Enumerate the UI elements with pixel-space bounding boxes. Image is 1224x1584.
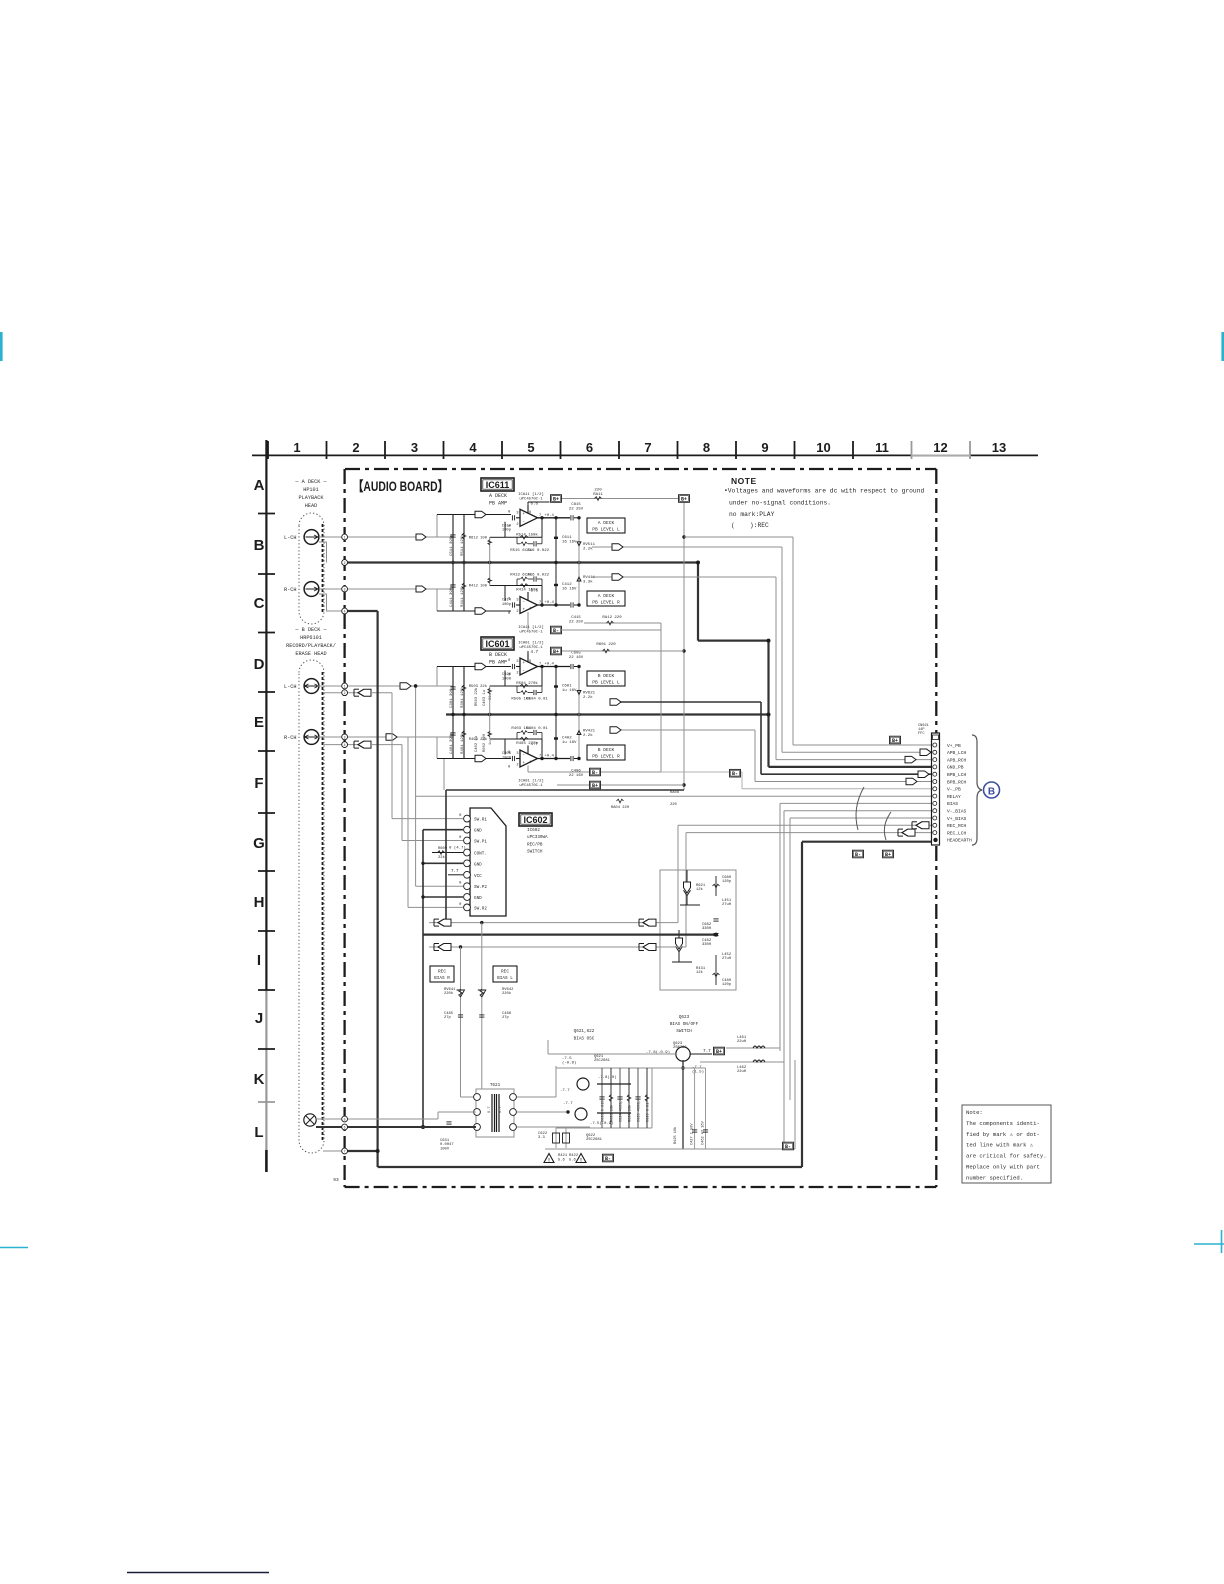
- svg-text:R504 270k: R504 270k: [516, 681, 538, 686]
- svg-text:22 16V: 22 16V: [569, 656, 584, 660]
- svg-text:uPC4570C-1: uPC4570C-1: [519, 784, 543, 788]
- svg-text:BIAS ON/OFF: BIAS ON/OFF: [670, 1022, 699, 1027]
- svg-text:PLAYBACK: PLAYBACK: [299, 495, 325, 501]
- svg-text:27p: 27p: [444, 1016, 452, 1020]
- svg-text:PB AMP: PB AMP: [489, 501, 507, 507]
- svg-text:-: -: [523, 600, 526, 604]
- svg-text:!: !: [579, 1158, 582, 1164]
- svg-text:C624 4000p: C624 4000p: [620, 1100, 624, 1122]
- svg-text:5: 5: [527, 440, 534, 455]
- svg-text:L: L: [254, 1124, 263, 1141]
- svg-text:R425 10k: R425 10k: [673, 1127, 678, 1144]
- svg-text:16 16V: 16 16V: [562, 588, 577, 592]
- svg-text:HP101: HP101: [303, 487, 319, 493]
- svg-text:PB LEVEL L: PB LEVEL L: [592, 527, 620, 533]
- svg-text:IC601: IC601: [485, 639, 509, 649]
- svg-text:BPB_LCH: BPB_LCH: [947, 772, 967, 778]
- svg-text:ICA01 [1/2]: ICA01 [1/2]: [518, 641, 544, 646]
- svg-text:-7.5: -7.5: [562, 1057, 572, 1061]
- svg-text:SWITCH: SWITCH: [527, 850, 543, 855]
- svg-text:R503 22k: R503 22k: [474, 687, 479, 706]
- svg-text:12: 12: [933, 440, 947, 455]
- svg-text:B+: B+: [716, 1049, 722, 1055]
- svg-text:SW.R2: SW.R2: [474, 906, 487, 911]
- svg-text:22uH: 22uH: [737, 1040, 746, 1044]
- svg-text:GND: GND: [474, 862, 482, 867]
- svg-text:22 16V: 22 16V: [569, 774, 584, 778]
- svg-text:RA04 220: RA04 220: [611, 806, 630, 810]
- svg-text:2.2k: 2.2k: [583, 733, 593, 738]
- svg-text:B+: B+: [892, 738, 898, 744]
- svg-text:RV421: RV421: [583, 730, 596, 734]
- svg-text:11: 11: [875, 440, 889, 455]
- svg-text:R-CH: R-CH: [284, 587, 296, 593]
- svg-text:R601 220: R601 220: [596, 643, 616, 647]
- svg-text:uPC4570C-1: uPC4570C-1: [519, 497, 543, 501]
- svg-text:REC_LCH: REC_LCH: [947, 830, 967, 836]
- svg-text:2.2k: 2.2k: [583, 546, 593, 551]
- svg-text:22 25V: 22 25V: [569, 507, 584, 511]
- svg-text:F: F: [254, 775, 263, 792]
- svg-text:ICA11 [1/2]: ICA11 [1/2]: [518, 492, 544, 497]
- svg-text:APB_RCH: APB_RCH: [947, 757, 967, 763]
- svg-text:J: J: [255, 1010, 263, 1027]
- svg-text:R414 150k: R414 150k: [516, 588, 538, 593]
- svg-text:B-: B-: [592, 770, 598, 776]
- svg-text:SWITCH: SWITCH: [676, 1029, 692, 1034]
- svg-text:22 25V: 22 25V: [569, 621, 584, 625]
- svg-text:REC/PB: REC/PB: [527, 842, 543, 847]
- svg-text:220: 220: [670, 803, 678, 807]
- svg-text:3: 3: [516, 660, 518, 664]
- svg-text:C626 0.01: C626 0.01: [647, 1103, 651, 1122]
- svg-text:C412: C412: [562, 583, 572, 587]
- svg-text:4: 4: [529, 761, 531, 765]
- svg-text:A DECK: A DECK: [598, 593, 615, 599]
- svg-text:3: 3: [516, 599, 518, 603]
- svg-text:C402: C402: [562, 737, 572, 741]
- svg-text:-: -: [523, 670, 526, 674]
- svg-text:1000: 1000: [502, 756, 512, 760]
- svg-text:RELAY: RELAY: [947, 794, 961, 800]
- svg-text:B DECK: B DECK: [489, 652, 507, 658]
- svg-text:— A DECK —: — A DECK —: [294, 479, 327, 485]
- svg-text:4: 4: [344, 743, 346, 747]
- svg-text:REC: REC: [501, 970, 509, 975]
- svg-text:ICA01 [1/2]: ICA01 [1/2]: [518, 779, 544, 784]
- svg-text:22uH: 22uH: [737, 1070, 746, 1074]
- svg-text:B DECK: B DECK: [598, 673, 615, 679]
- svg-text:2: 2: [344, 561, 346, 565]
- svg-text:RV511: RV511: [583, 543, 596, 547]
- svg-text:NOTE: NOTE: [731, 476, 757, 486]
- svg-text:C416 0.022: C416 0.022: [525, 574, 550, 578]
- svg-text:+0.4: +0.4: [545, 601, 555, 605]
- svg-text:+0.4: +0.4: [545, 514, 555, 518]
- svg-text:BIAS R: BIAS R: [434, 976, 450, 981]
- svg-text:SW.R1: SW.R1: [474, 818, 487, 823]
- svg-text:C516 0.022: C516 0.022: [525, 549, 550, 553]
- svg-text:4: 4: [529, 608, 531, 612]
- svg-text:5.6: 5.6: [558, 1159, 566, 1163]
- svg-text:•Voltages and waveforms are dc: •Voltages and waveforms are dc with resp…: [724, 488, 924, 495]
- svg-text:C427 1 50V: C427 1 50V: [691, 1123, 695, 1145]
- svg-text:R514 150k: R514 150k: [516, 532, 538, 537]
- svg-text:6: 6: [344, 1125, 346, 1129]
- svg-text:PB LEVEL R: PB LEVEL R: [592, 600, 620, 606]
- svg-text:C415: C415: [571, 616, 581, 620]
- svg-text:2SC2681: 2SC2681: [594, 1059, 611, 1063]
- svg-text:7: 7: [344, 1149, 346, 1153]
- svg-text:-7.7: -7.7: [560, 1089, 570, 1093]
- svg-text:IC602: IC602: [527, 828, 540, 833]
- svg-text:G: G: [253, 835, 265, 852]
- svg-text:PB AMP: PB AMP: [489, 660, 507, 666]
- svg-text:ICA11 [1/2]: ICA11 [1/2]: [518, 625, 544, 630]
- svg-text:R404 270k: R404 270k: [516, 741, 538, 746]
- svg-text:ERASE HEAD: ERASE HEAD: [295, 651, 326, 657]
- svg-text:B-: B-: [605, 1156, 611, 1162]
- svg-text:CONT.: CONT.: [474, 852, 487, 857]
- svg-text:(1.5): (1.5): [692, 1070, 704, 1075]
- svg-text:HEAD: HEAD: [305, 503, 317, 509]
- svg-text:V+_BIAS: V+_BIAS: [947, 816, 967, 822]
- svg-text:C403 1u: C403 1u: [483, 690, 487, 706]
- svg-text:3: 3: [411, 440, 418, 455]
- svg-text:H: H: [254, 894, 265, 911]
- svg-text:2: 2: [516, 523, 518, 527]
- svg-text:B+: B+: [553, 649, 559, 655]
- svg-text:B-: B-: [732, 771, 738, 777]
- svg-text:( ):REC: ( ):REC: [731, 522, 769, 529]
- svg-text:RECORD/PLAYBACK/: RECORD/PLAYBACK/: [286, 643, 336, 649]
- svg-text:C625 4000p: C625 4000p: [638, 1100, 642, 1122]
- svg-text:8: 8: [529, 660, 531, 664]
- svg-text:L-CH: L-CH: [284, 684, 296, 690]
- svg-text:3300: 3300: [702, 943, 712, 947]
- svg-text:0.7: 0.7: [488, 1107, 492, 1113]
- svg-text:2: 2: [352, 440, 359, 455]
- svg-text:R503 22k: R503 22k: [469, 684, 488, 689]
- svg-text:REC_RCH: REC_RCH: [947, 823, 967, 829]
- svg-text:0 (4.7): 0 (4.7): [449, 846, 466, 851]
- svg-text:are critical for safety.: are critical for safety.: [966, 1153, 1047, 1160]
- svg-text:R-CH: R-CH: [284, 735, 296, 741]
- svg-text:HEADEARTH: HEADEARTH: [947, 838, 972, 844]
- svg-text:12k: 12k: [696, 970, 704, 975]
- svg-text:VCC: VCC: [474, 874, 482, 879]
- svg-text:BPB_RCH: BPB_RCH: [947, 779, 967, 785]
- svg-text:C301 390: C301 390: [450, 688, 454, 708]
- svg-text:10: 10: [816, 440, 830, 455]
- svg-text:16 16V: 16 16V: [562, 540, 577, 544]
- svg-text:C625 0.015: C625 0.015: [602, 1100, 606, 1122]
- svg-text:-7.7: -7.7: [563, 1102, 573, 1106]
- svg-text:B+: B+: [681, 497, 687, 503]
- svg-text:5.6: 5.6: [569, 1159, 577, 1163]
- svg-text:E: E: [254, 714, 264, 731]
- svg-text:uPC4570C-1: uPC4570C-1: [519, 631, 543, 635]
- svg-text:uPC4570C-1: uPC4570C-1: [519, 646, 543, 650]
- svg-text:220: 220: [594, 489, 602, 493]
- svg-text:C411 390p: C411 390p: [450, 585, 454, 607]
- svg-text:C: C: [254, 595, 265, 612]
- svg-text:Note:: Note:: [966, 1109, 983, 1116]
- svg-text:220k: 220k: [444, 991, 454, 996]
- svg-text:R602 220: R602 220: [483, 733, 487, 752]
- svg-text:no mark:PLAY: no mark:PLAY: [729, 511, 775, 518]
- svg-text:3.3k: 3.3k: [583, 580, 593, 585]
- svg-text:C611: C611: [562, 536, 572, 540]
- svg-text:FFC: FFC: [918, 732, 924, 736]
- svg-text:-: -: [523, 754, 526, 758]
- svg-text:-: -: [523, 521, 526, 525]
- svg-text:BIAS OSC: BIAS OSC: [574, 1037, 595, 1042]
- svg-text:IC611: IC611: [486, 480, 510, 490]
- svg-text:3: 3: [516, 752, 518, 756]
- svg-text:12k: 12k: [696, 887, 704, 892]
- svg-text:C815: C815: [571, 503, 581, 507]
- svg-text:6.6: 6.6: [531, 502, 539, 506]
- svg-text:GND: GND: [474, 896, 482, 901]
- svg-text:B-: B-: [553, 628, 559, 634]
- svg-text:8: 8: [529, 511, 531, 515]
- svg-text:Q621,622: Q621,622: [574, 1029, 595, 1034]
- svg-text:B-: B-: [855, 852, 861, 858]
- svg-text:4: 4: [469, 440, 477, 455]
- svg-text:【AUDIO BOARD】: 【AUDIO BOARD】: [353, 479, 448, 494]
- svg-text:2.2k: 2.2k: [583, 695, 593, 700]
- svg-text:2: 2: [344, 691, 346, 695]
- svg-text:0.7: 0.7: [499, 1107, 503, 1113]
- svg-text:T621: T621: [490, 1083, 501, 1088]
- svg-text:B: B: [254, 537, 265, 554]
- svg-text:D: D: [254, 656, 265, 673]
- svg-text:GND: GND: [474, 829, 482, 834]
- svg-text:4: 4: [344, 609, 346, 613]
- svg-text:+0.4: +0.4: [545, 663, 555, 667]
- svg-text:9: 9: [761, 440, 768, 455]
- svg-text:2: 2: [516, 610, 518, 614]
- svg-text:R412 100: R412 100: [469, 585, 488, 589]
- svg-text:PB LEVEL R: PB LEVEL R: [592, 754, 620, 760]
- svg-text:1u 16V: 1u 16V: [562, 689, 577, 693]
- svg-text:5: 5: [344, 1117, 346, 1121]
- svg-text:2: 2: [516, 764, 518, 768]
- svg-text:7: 7: [644, 440, 651, 455]
- svg-text:IC602: IC602: [523, 815, 547, 825]
- svg-text:V-_BIAS: V-_BIAS: [947, 809, 967, 815]
- svg-text:under no-signal conditions.: under no-signal conditions.: [729, 500, 831, 507]
- svg-text:V+_PB: V+_PB: [947, 743, 961, 749]
- svg-text:BIAS: BIAS: [947, 801, 958, 807]
- svg-text:!: !: [547, 1158, 550, 1164]
- svg-text:B-: B-: [785, 1144, 791, 1150]
- svg-text:100p: 100p: [502, 603, 512, 607]
- svg-text:93: 93: [333, 1177, 339, 1183]
- svg-text:+0.4: +0.4: [545, 755, 555, 759]
- svg-text:1000: 1000: [502, 677, 512, 681]
- svg-text:3300: 3300: [702, 927, 712, 931]
- svg-text:120p: 120p: [722, 983, 732, 987]
- svg-text:PB LEVEL L: PB LEVEL L: [592, 680, 620, 686]
- svg-text:27uH: 27uH: [722, 903, 731, 907]
- svg-text:1u 16V: 1u 16V: [562, 741, 577, 745]
- svg-text:RV621: RV621: [583, 692, 596, 696]
- svg-text:C504 0.01: C504 0.01: [526, 698, 548, 702]
- svg-text:-7.8(-0): -7.8(-0): [598, 1075, 617, 1080]
- svg-text:SW.P1: SW.P1: [474, 840, 487, 845]
- svg-text:RA12 220: RA12 220: [602, 616, 622, 620]
- svg-text:A DECK: A DECK: [598, 520, 615, 526]
- svg-text:L-CH: L-CH: [284, 535, 296, 541]
- svg-text:— B DECK —: — B DECK —: [294, 627, 327, 633]
- svg-text:8: 8: [703, 440, 710, 455]
- svg-text:1: 1: [293, 440, 300, 455]
- svg-text:1: 1: [344, 684, 346, 688]
- svg-text:GND_PB: GND_PB: [947, 765, 964, 771]
- svg-text:RA08: RA08: [670, 791, 680, 795]
- svg-text:R612 100: R612 100: [469, 536, 488, 540]
- svg-text:1u: 1u: [489, 740, 493, 745]
- svg-text:2SB798: 2SB798: [673, 1046, 687, 1050]
- svg-text:The components identi-: The components identi-: [966, 1120, 1040, 1127]
- svg-text:C605: C605: [571, 652, 581, 656]
- svg-text:100p: 100p: [502, 529, 512, 533]
- svg-text:3: 3: [344, 587, 346, 591]
- svg-text:C601: C601: [562, 685, 572, 689]
- svg-text:C404 0.01: C404 0.01: [526, 727, 548, 731]
- svg-text:B: B: [988, 787, 995, 798]
- svg-text:B+: B+: [592, 783, 598, 789]
- svg-text:SW.P2: SW.P2: [474, 885, 487, 890]
- svg-text:R403 22k: R403 22k: [469, 737, 488, 742]
- svg-text:6: 6: [586, 440, 593, 455]
- svg-text:RA11: RA11: [593, 493, 603, 497]
- svg-text:R421: R421: [558, 1154, 568, 1158]
- svg-text:BIAS L: BIAS L: [497, 976, 513, 981]
- svg-text:4.7: 4.7: [531, 651, 539, 655]
- svg-text:B DECK: B DECK: [598, 747, 615, 753]
- svg-text:(-0.9): (-0.9): [562, 1061, 576, 1066]
- svg-text:220k: 220k: [502, 991, 512, 996]
- svg-text:Replace only with part: Replace only with part: [966, 1164, 1040, 1171]
- svg-text:Q623: Q623: [679, 1015, 690, 1020]
- svg-text:B+: B+: [885, 852, 891, 858]
- svg-text:3.3: 3.3: [538, 1136, 546, 1140]
- svg-text:HRP6101: HRP6101: [300, 635, 322, 641]
- svg-text:13: 13: [992, 440, 1006, 455]
- svg-text:R422: R422: [569, 1154, 579, 1158]
- svg-text:100V: 100V: [440, 1147, 450, 1151]
- svg-text:3: 3: [516, 511, 518, 515]
- svg-text:A DECK: A DECK: [489, 493, 507, 499]
- svg-text:REC: REC: [438, 970, 446, 975]
- svg-text:I: I: [257, 952, 261, 969]
- svg-text:C462 47 16V: C462 47 16V: [702, 1120, 706, 1145]
- svg-text:number specified.: number specified.: [966, 1174, 1023, 1181]
- svg-text:K: K: [254, 1071, 265, 1088]
- svg-text:fied by mark ⚠ or dot-: fied by mark ⚠ or dot-: [966, 1131, 1040, 1138]
- svg-text:A: A: [254, 477, 265, 494]
- svg-text:uPC339WA: uPC339WA: [527, 835, 548, 840]
- svg-text:7.7: 7.7: [703, 1049, 711, 1054]
- svg-text:27uH: 27uH: [722, 957, 731, 961]
- svg-text:27p: 27p: [502, 1016, 510, 1020]
- svg-text:B+: B+: [553, 497, 559, 503]
- svg-text:120p: 120p: [722, 880, 732, 884]
- svg-text:ted line with mark ⚠: ted line with mark ⚠: [966, 1142, 1034, 1149]
- svg-text:2SC2681: 2SC2681: [586, 1138, 603, 1142]
- svg-text:V-_PB: V-_PB: [947, 787, 961, 793]
- svg-text:2: 2: [516, 672, 518, 676]
- svg-text:1: 1: [344, 535, 346, 539]
- svg-text:APB_LCH: APB_LCH: [947, 750, 967, 756]
- svg-text:7.7: 7.7: [451, 870, 459, 874]
- svg-text:3: 3: [344, 735, 346, 739]
- svg-text:22k: 22k: [438, 855, 446, 860]
